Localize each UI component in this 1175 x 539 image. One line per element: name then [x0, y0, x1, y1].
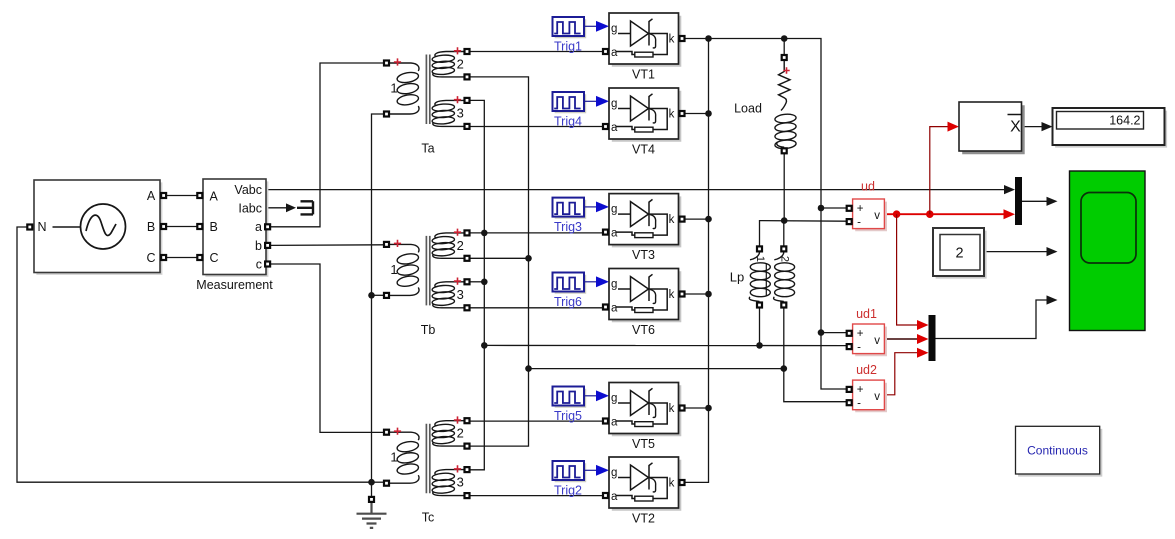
- wire Lp winding2 top riser: [783, 221, 785, 249]
- wire c from Measurement down to Tc primary: [271, 264, 383, 432]
- wire Mux2 output to Scope input 3: [936, 300, 1049, 339]
- svg-text:+: +: [857, 328, 864, 340]
- wire Constant block to Scope input 2: [984, 251, 1049, 253]
- svg-text:g: g: [611, 204, 617, 216]
- port Lp w1 top: [756, 245, 763, 252]
- transformer Tb: [390, 233, 464, 308]
- port sec2-bottom Tc: [463, 443, 470, 450]
- svg-text:Iabc: Iabc: [238, 201, 262, 215]
- port primary-bottom Tc: [383, 480, 390, 487]
- svg-text:Trig3: Trig3: [554, 220, 582, 234]
- wire ground bus x=371 joining primary bottoms of Ta Tb Tc: [372, 114, 384, 496]
- transformer Tc: [390, 421, 464, 496]
- thyristor VT1: [609, 13, 681, 67]
- svg-text:a: a: [611, 122, 618, 134]
- voltage measurement block ud2: [853, 380, 887, 412]
- wire Lp winding2 bottom node down to ud2 minus: [784, 305, 846, 402]
- port a of VT6: [602, 303, 609, 310]
- junction Lp winding1 bottom riser: [756, 342, 763, 349]
- svg-text:g: g: [611, 393, 617, 405]
- svg-text:A: A: [210, 190, 219, 204]
- wire Tb sec2 bottom to N1 bus: [471, 257, 529, 259]
- polarity + primary Tb: [394, 240, 401, 247]
- wire top positive bus to Load and measurement bus x=821: [709, 39, 847, 390]
- wire Tb primary bottom to ground bus: [372, 294, 384, 296]
- junction ground node: [368, 479, 375, 486]
- port + of ud: [846, 205, 853, 212]
- port sec3-top Tc: [463, 466, 470, 473]
- wire Ta sec2 top to VT1 anode: [471, 51, 603, 53]
- load RL branch: [775, 61, 797, 149]
- pulse generator Trig1: [553, 17, 587, 38]
- svg-text:a: a: [611, 47, 618, 59]
- svg-text:g: g: [611, 98, 617, 110]
- svg-text:-: -: [857, 398, 861, 410]
- junction ud plus tap: [818, 205, 825, 212]
- svg-text:1: 1: [390, 450, 397, 465]
- junction VT3 k: [705, 216, 712, 223]
- port B of source: [160, 223, 167, 230]
- port a of VT5: [602, 417, 609, 424]
- wire red riser down to Mux2 input 1: [897, 214, 918, 325]
- svg-text:+: +: [857, 384, 864, 396]
- wire ud2 output to Mux2 input 3: [885, 353, 919, 395]
- svg-text:ud1: ud1: [856, 307, 877, 321]
- thyristor VT5: [609, 383, 681, 437]
- svg-text:B: B: [147, 220, 155, 234]
- port b of measurement: [264, 242, 271, 249]
- terminator on Iabc signal: [297, 201, 313, 214]
- polarity + sec2 Ta: [454, 47, 461, 54]
- svg-text:1: 1: [754, 256, 766, 262]
- wire Ta sec3 bottom to VT4 anode: [471, 126, 603, 128]
- port a of VT3: [602, 229, 609, 236]
- wire Tb sec3 top to N2 bus: [471, 281, 485, 283]
- wire red riser up to Mean block input: [930, 127, 949, 215]
- wire gate pulse Trig6 to VT6: [584, 281, 597, 283]
- three-phase V-I measurement block: [203, 179, 268, 277]
- svg-text:g: g: [611, 279, 617, 291]
- wire gate pulse Trig4 to VT4: [584, 100, 597, 102]
- svg-text:VT2: VT2: [632, 512, 655, 526]
- wire Lp winding1 bottom riser: [759, 305, 761, 345]
- polarity + primary Ta: [394, 58, 401, 65]
- port a of VT4: [602, 123, 609, 130]
- port sec3-bottom Tb: [463, 304, 470, 311]
- wire VT4 k to cathode bus: [686, 113, 709, 115]
- svg-text:Lp: Lp: [730, 269, 744, 284]
- svg-text:2: 2: [457, 426, 464, 441]
- ground symbol: [357, 503, 387, 528]
- svg-text:v: v: [874, 210, 880, 222]
- port - of ud1: [846, 343, 853, 350]
- wire ud output red to Mux1 input 2: [884, 213, 1007, 215]
- port C of measurement: [196, 254, 203, 261]
- port primary-top Tc: [383, 429, 390, 436]
- svg-text:a: a: [255, 220, 262, 234]
- wire Tc sec2 top to VT5 anode: [471, 420, 603, 422]
- thyristor VT4: [609, 88, 681, 142]
- polarity + sec2 Tc: [454, 416, 461, 423]
- svg-text:C: C: [146, 251, 155, 265]
- svg-text:-: -: [857, 217, 861, 229]
- svg-text:2: 2: [457, 238, 464, 253]
- svg-text:C: C: [210, 251, 219, 265]
- port sec3-bottom Tc: [463, 492, 470, 499]
- port k of VT5: [678, 404, 685, 411]
- display block showing 164.2: [1053, 108, 1168, 148]
- polarity + sec3 Tb: [454, 278, 461, 285]
- junction Lp midpoint node: [781, 217, 788, 224]
- svg-text:VT4: VT4: [632, 143, 655, 157]
- svg-text:k: k: [669, 478, 675, 490]
- pulse generator Trig2: [553, 461, 587, 482]
- wire gate pulse Trig1 to VT1: [584, 25, 597, 27]
- svg-text:k: k: [669, 403, 675, 415]
- wire N2 bus x=484 (sec-3 tops): [471, 100, 485, 469]
- junction red ud output to mean riser: [926, 210, 934, 218]
- svg-text:VT3: VT3: [632, 248, 655, 262]
- svg-text:Trig4: Trig4: [554, 115, 582, 129]
- port primary-bottom Tb: [383, 292, 390, 299]
- wire Mean block output to Display: [1022, 126, 1044, 128]
- svg-text:164.2: 164.2: [1109, 114, 1140, 128]
- svg-text:VT5: VT5: [632, 437, 655, 451]
- junction Load top riser: [781, 35, 788, 42]
- svg-text:Measurement: Measurement: [196, 278, 273, 292]
- svg-text:v: v: [874, 335, 880, 347]
- svg-text:-: -: [857, 342, 861, 354]
- junction N2 to horizontal run: [481, 342, 488, 349]
- pulse generator Trig3: [553, 198, 587, 219]
- port of ground block: [368, 496, 375, 503]
- svg-text:3: 3: [457, 475, 464, 490]
- port sec3-top Ta: [463, 97, 470, 104]
- polarity + primary Tc: [394, 428, 401, 435]
- three-phase programmable voltage source block: [34, 180, 162, 275]
- constant block value 2: [933, 228, 987, 279]
- port a of VT1: [602, 48, 609, 55]
- junction VT6 k: [705, 291, 712, 298]
- wire x821 bus to ud plus: [821, 207, 846, 209]
- wire Tb sec2 top to VT3 anode: [471, 232, 603, 234]
- port Lp w2 top: [780, 245, 787, 252]
- svg-text:a: a: [611, 417, 618, 429]
- port sec3-top Tb: [463, 278, 470, 285]
- svg-text:Tb: Tb: [421, 323, 436, 337]
- svg-text:3: 3: [457, 105, 464, 120]
- interphase reactor Lp: [749, 253, 794, 302]
- svg-text:2: 2: [779, 256, 791, 262]
- mux Mux2: [929, 315, 936, 361]
- junction Tb primary bottom: [368, 292, 375, 299]
- port load bottom: [781, 147, 788, 154]
- wire VT5 k to cathode bus: [686, 407, 709, 409]
- port sec2-bottom Ta: [463, 73, 470, 80]
- svg-text:Ta: Ta: [421, 142, 434, 156]
- wire Tc primary bottom to ground bus: [372, 481, 384, 483]
- junction N1 to horizontal run: [525, 365, 532, 372]
- junction N2 bus on VT3 anode wire: [481, 230, 488, 237]
- polarity + sec3 Ta: [454, 96, 461, 103]
- junction VT4 k: [705, 110, 712, 117]
- port B of measurement: [196, 223, 203, 230]
- svg-text:g: g: [611, 467, 617, 479]
- port + of ud1: [846, 330, 853, 337]
- svg-text:a: a: [611, 491, 618, 503]
- port sec2-top Ta: [463, 48, 470, 55]
- svg-text:v: v: [874, 391, 880, 403]
- port Lp w1 bottom: [756, 301, 763, 308]
- wire x821 bus to ud1 plus: [821, 332, 846, 334]
- polarity + sec2 Tb: [454, 229, 461, 236]
- wire ud1 output to Mux2 input 2: [885, 338, 919, 340]
- wire gate pulse Trig2 to VT2: [584, 469, 597, 471]
- port a of measurement: [264, 223, 271, 230]
- wire Load bottom riser to Lp midpoint: [783, 151, 785, 221]
- port A of measurement: [196, 192, 203, 199]
- mux Mux1: [1015, 177, 1022, 225]
- wire source C to measurement C: [167, 257, 197, 259]
- svg-text:g: g: [611, 23, 617, 35]
- wire N1 bus to Lp winding2 bottom: [529, 368, 784, 370]
- pulse generator Trig4: [553, 92, 587, 113]
- svg-text:Load: Load: [734, 101, 762, 115]
- wire N1 bus x=528 (sec-2 bottoms): [471, 77, 529, 446]
- port sec2-top Tb: [463, 229, 470, 236]
- wire Tc sec3 bottom to VT2 anode: [471, 495, 603, 497]
- svg-text:a: a: [611, 228, 618, 240]
- port c of measurement: [264, 260, 271, 267]
- svg-text:Trig1: Trig1: [554, 40, 582, 54]
- mean block U1: [959, 102, 1025, 154]
- wire gate pulse Trig5 to VT5: [584, 395, 597, 397]
- svg-text:2: 2: [955, 246, 963, 262]
- port sec2-bottom Tb: [463, 255, 470, 262]
- wire Vabc from Measurement to Mux1 input 1: [266, 189, 1006, 191]
- svg-text:VT1: VT1: [632, 68, 655, 82]
- wire VT3 k to cathode bus: [686, 218, 709, 220]
- svg-text:A: A: [147, 189, 156, 203]
- svg-text:N: N: [37, 220, 46, 234]
- wire Iabc from Measurement to terminator: [266, 207, 288, 209]
- wire Load top riser: [783, 39, 785, 58]
- port sec3-bottom Ta: [463, 123, 470, 130]
- port + of ud2: [846, 386, 853, 393]
- wire Mux1 output to Scope input 1: [1022, 200, 1049, 202]
- pulse generator Trig5: [553, 387, 587, 408]
- port k of VT1: [678, 35, 685, 42]
- svg-text:X: X: [1010, 119, 1021, 136]
- junction Tb sec2 bottom on N1 bus: [525, 255, 532, 262]
- port a of VT2: [602, 492, 609, 499]
- svg-text:2: 2: [457, 57, 464, 72]
- svg-text:3: 3: [457, 287, 464, 302]
- junction Tb sec3 top on N2 bus: [481, 279, 488, 286]
- svg-text:a: a: [611, 303, 618, 315]
- polarity + load: [783, 67, 789, 73]
- port Lp w2 bottom: [780, 301, 787, 308]
- junction red ud output to mux2 riser: [893, 210, 901, 218]
- transformer Ta: [390, 52, 464, 127]
- svg-text:Vabc: Vabc: [234, 183, 262, 197]
- wire a from Measurement up to Ta primary: [271, 63, 383, 227]
- wire N return from source N port down and along bottom to ground node: [17, 227, 372, 482]
- wire cathode bus x=708.5 (VT1..VT2 k): [686, 39, 709, 483]
- svg-text:b: b: [255, 239, 262, 253]
- wire gate pulse Trig3 to VT3: [584, 206, 597, 208]
- wire Tb sec3 bottom to VT6 anode: [471, 307, 603, 309]
- svg-text:B: B: [210, 220, 218, 234]
- svg-text:c: c: [256, 257, 262, 271]
- wire Lp midpoint to ud minus: [760, 221, 847, 249]
- svg-text:Continuous: Continuous: [1027, 444, 1088, 458]
- svg-text:k: k: [669, 34, 675, 46]
- port N of source: [26, 223, 33, 230]
- pulse generator Trig6: [553, 273, 587, 294]
- wire N2 bus to Lp winding1 bottom and ud1 minus: [484, 344, 846, 346]
- svg-text:Trig5: Trig5: [554, 409, 582, 423]
- svg-text:k: k: [669, 214, 675, 226]
- scope block: [1070, 171, 1146, 331]
- svg-text:ud: ud: [861, 180, 875, 194]
- port primary-bottom Ta: [383, 110, 390, 117]
- junction ud1 plus tap: [818, 329, 825, 336]
- wire source B to measurement B: [167, 226, 197, 228]
- port C of source: [160, 254, 167, 261]
- junction VT1 k on cathode bus: [705, 35, 712, 42]
- voltage measurement block ud: [853, 199, 887, 231]
- thyristor VT2: [609, 457, 681, 511]
- port - of ud: [846, 218, 853, 225]
- port - of ud2: [846, 399, 853, 406]
- wire source A to measurement A: [167, 195, 197, 197]
- svg-text:Trig6: Trig6: [554, 295, 582, 309]
- svg-text:k: k: [669, 289, 675, 301]
- port A of source: [160, 192, 167, 199]
- svg-text:VT6: VT6: [632, 323, 655, 337]
- thyristor VT3: [609, 194, 681, 248]
- svg-text:1: 1: [390, 262, 397, 277]
- port primary-top Ta: [383, 59, 390, 66]
- port primary-top Tb: [383, 241, 390, 248]
- svg-text:Tc: Tc: [422, 511, 435, 525]
- wire VT6 k to cathode bus: [686, 293, 709, 295]
- port k of VT2: [678, 479, 685, 486]
- wire b from Measurement to Tb primary: [271, 244, 383, 247]
- port load top: [781, 54, 788, 61]
- voltage measurement block ud1: [853, 324, 887, 356]
- svg-text:Trig2: Trig2: [554, 484, 582, 498]
- junction VT5 k: [705, 405, 712, 412]
- port k of VT3: [678, 216, 685, 223]
- port k of VT6: [678, 290, 685, 297]
- port sec2-top Tc: [463, 417, 470, 424]
- svg-text:k: k: [669, 109, 675, 121]
- powergui block Continuous: [1016, 426, 1103, 476]
- thyristor VT6: [609, 269, 681, 323]
- svg-text:1: 1: [390, 81, 397, 96]
- junction Lp winding2 bottom riser, to ud2 minus: [781, 365, 788, 372]
- svg-text:+: +: [857, 203, 864, 215]
- svg-text:ud2: ud2: [856, 363, 877, 377]
- polarity + sec3 Tc: [454, 465, 461, 472]
- port k of VT4: [678, 110, 685, 117]
